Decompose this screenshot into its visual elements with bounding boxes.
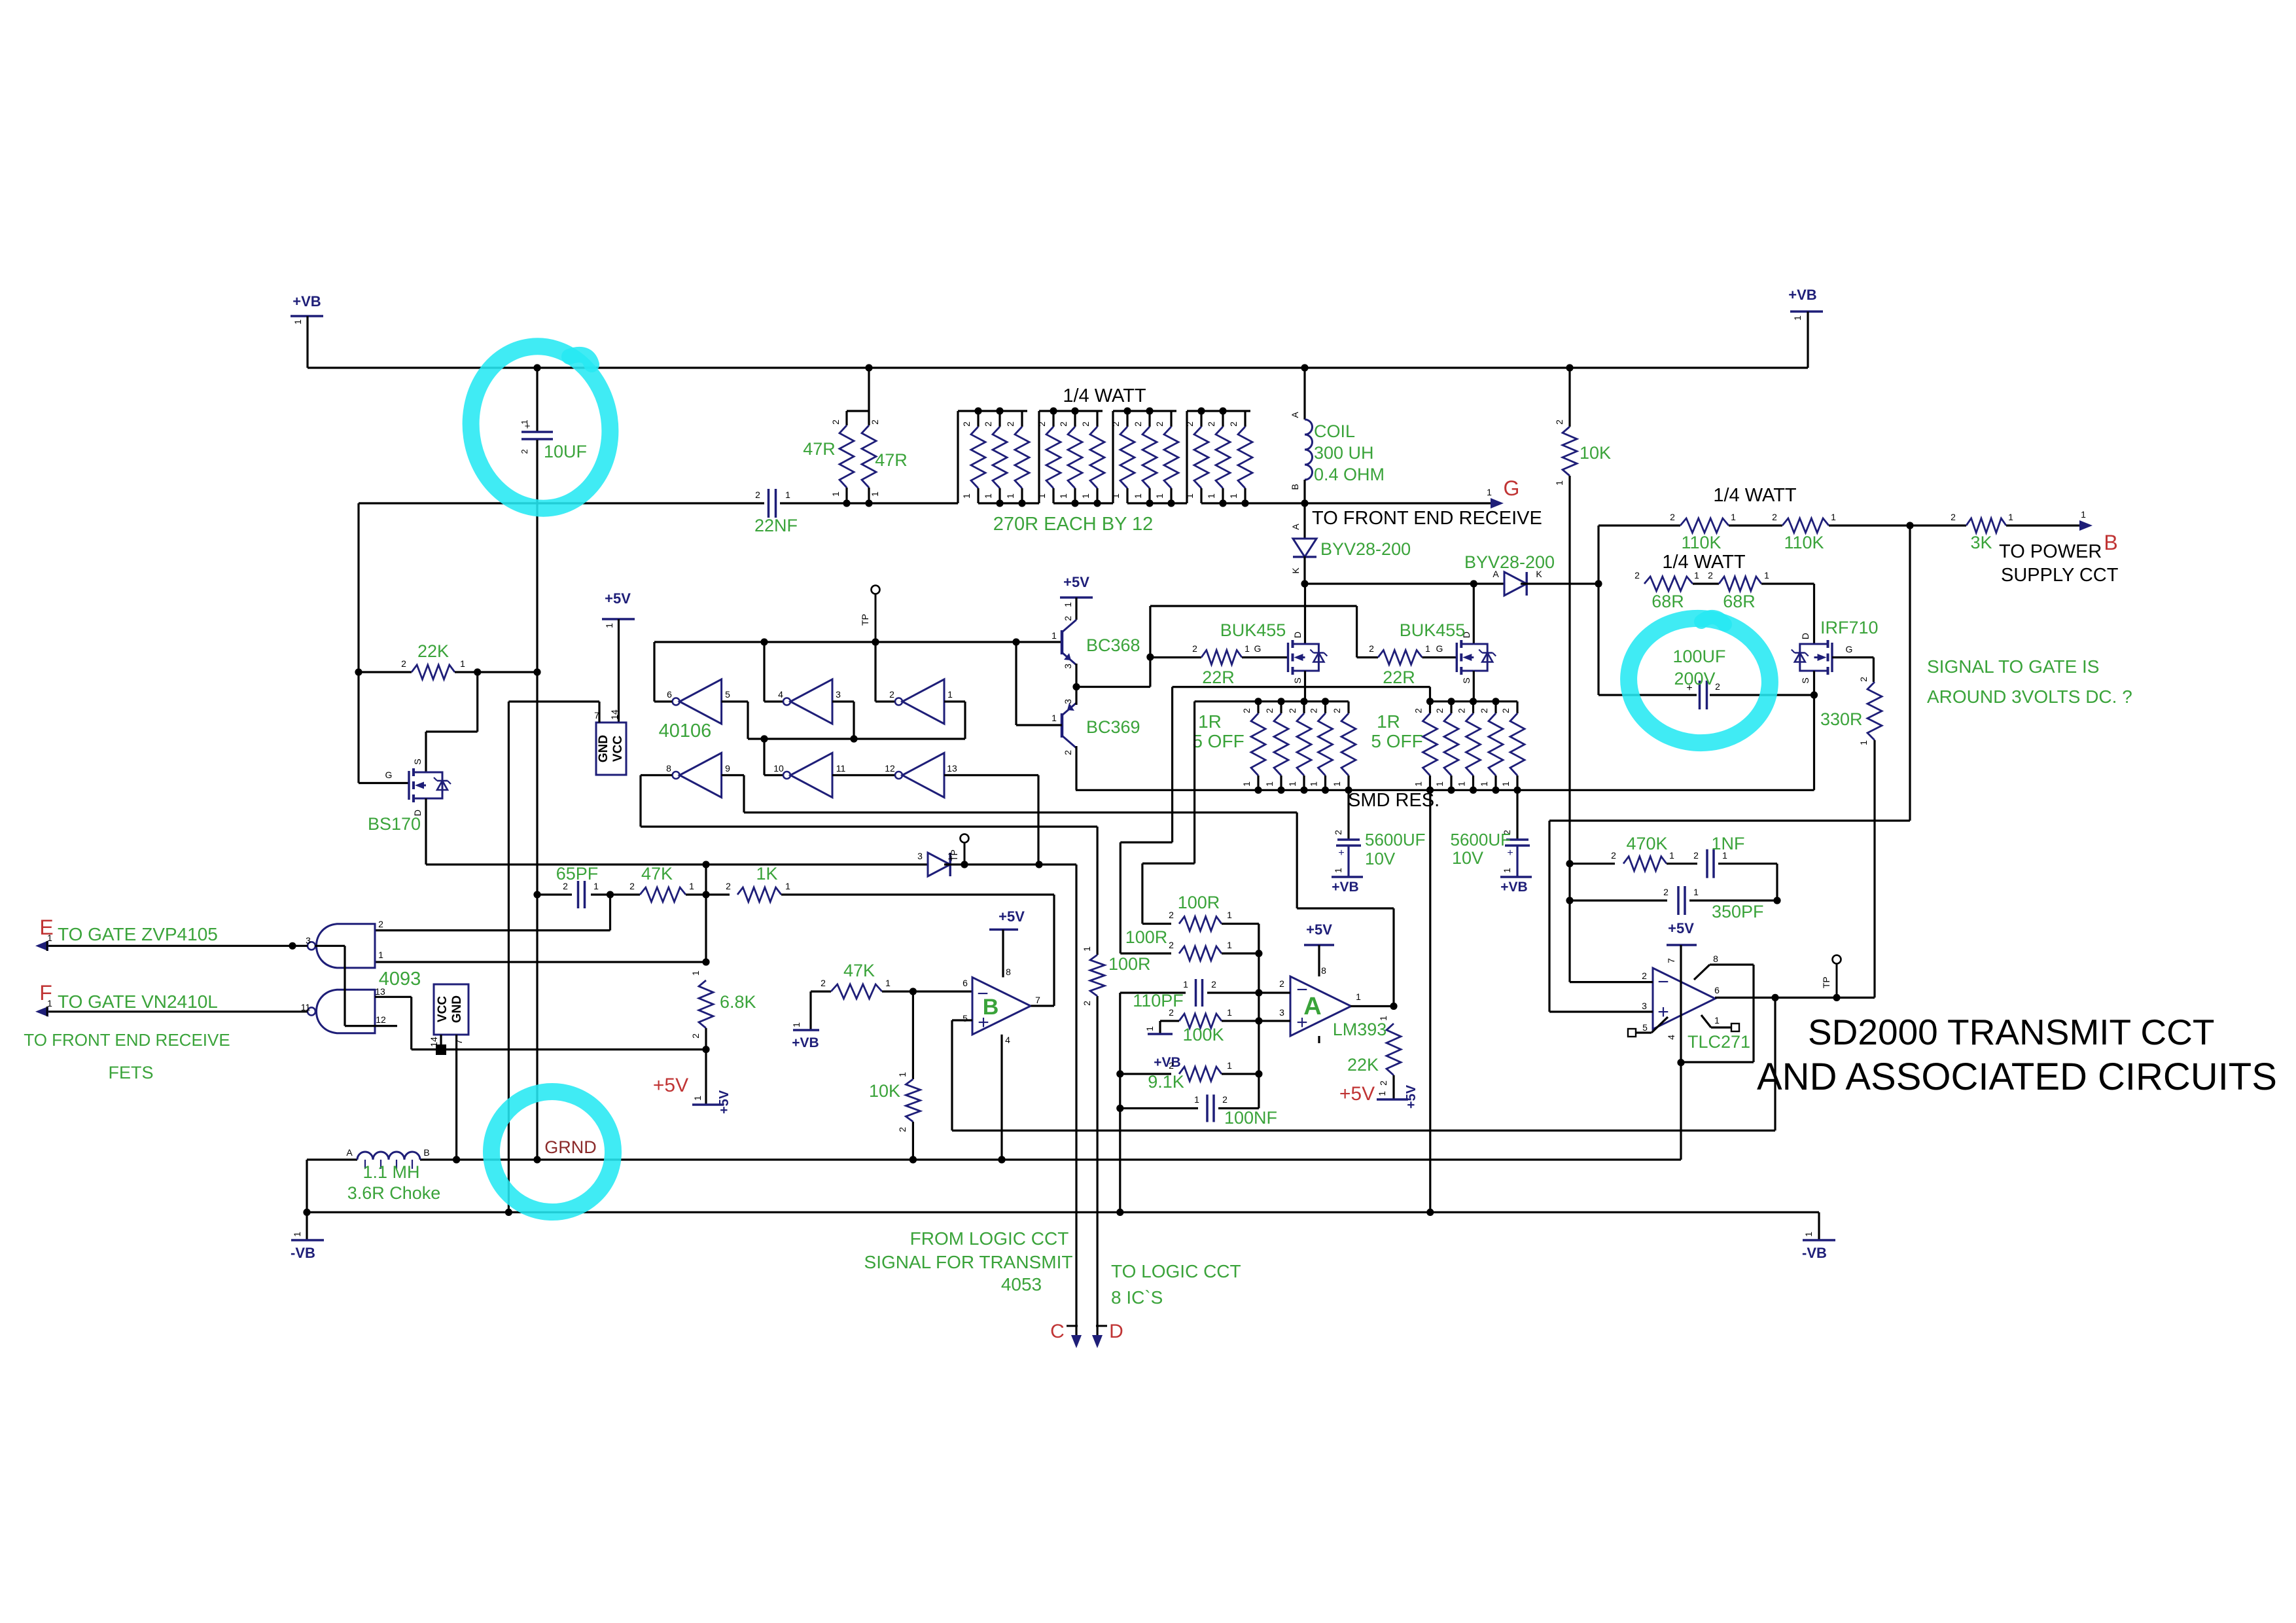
svg-text:1: 1 <box>1080 493 1091 499</box>
svg-text:2: 2 <box>1693 850 1699 861</box>
svg-text:12: 12 <box>376 1014 386 1025</box>
svg-text:9: 9 <box>725 763 730 774</box>
svg-text:BS170: BS170 <box>368 814 421 834</box>
highlight circle GRND <box>487 1088 617 1217</box>
test point TP out <box>1833 955 1841 964</box>
resistor 22R second <box>1357 656 1378 658</box>
svg-text:1: 1 <box>1803 1232 1814 1237</box>
svg-text:100UF: 100UF <box>1672 647 1725 666</box>
wire BC368 emitter <box>1075 664 1077 687</box>
svg-text:LM393: LM393 <box>1333 1020 1387 1039</box>
svg-text:1: 1 <box>689 881 694 891</box>
resistor 22K <box>355 668 362 675</box>
svg-text:+5V: +5V <box>998 908 1025 925</box>
svg-text:A: A <box>1303 993 1321 1020</box>
op-amp A LM393 <box>1290 976 1351 1036</box>
wire D line <box>1096 996 1098 1335</box>
svg-text:110K: 110K <box>1784 533 1824 552</box>
resistor bank 270R x12 <box>957 411 959 503</box>
svg-text:B: B <box>1290 484 1300 490</box>
svg-text:B: B <box>423 1147 429 1158</box>
svg-text:2: 2 <box>1169 910 1174 920</box>
svg-text:1: 1 <box>1051 630 1057 641</box>
gate 40106 B <box>790 679 832 724</box>
svg-text:G: G <box>1254 643 1262 654</box>
svg-text:2: 2 <box>1222 1094 1227 1105</box>
svg-text:2: 2 <box>1309 708 1319 713</box>
wire gnd to TLC pin4 <box>1680 1063 1682 1160</box>
svg-text:SIGNAL TO GATE IS: SIGNAL TO GATE IS <box>1927 656 2099 677</box>
resistor 47K B <box>811 990 831 992</box>
svg-text:2: 2 <box>1333 830 1343 835</box>
svg-text:14: 14 <box>609 709 620 720</box>
svg-text:47R: 47R <box>875 450 908 470</box>
svg-text:5: 5 <box>963 1013 968 1024</box>
wire TLC271 pin8 loop <box>1694 965 1710 980</box>
svg-text:330R: 330R <box>1820 709 1863 729</box>
ic 4093 VCC GND box <box>434 984 468 1035</box>
svg-text:2: 2 <box>1858 677 1869 682</box>
svg-text:SUPPLY CCT: SUPPLY CCT <box>2001 565 2119 586</box>
svg-text:G: G <box>385 770 393 780</box>
node G arrow <box>1491 498 1504 508</box>
wire 22R2 to gate <box>1422 656 1457 658</box>
svg-text:100R: 100R <box>1178 893 1220 912</box>
wire gateA out to pin12 <box>315 945 345 947</box>
svg-text:-VB: -VB <box>1802 1245 1827 1261</box>
svg-text:2: 2 <box>1715 681 1720 692</box>
svg-text:2: 2 <box>1154 421 1165 427</box>
power +VB at 47K B <box>809 991 811 1030</box>
svg-text:47K: 47K <box>843 961 875 980</box>
svg-text:1: 1 <box>791 1022 802 1027</box>
svg-text:7: 7 <box>1666 958 1676 963</box>
svg-text:−: − <box>1657 971 1669 993</box>
wire emitters to gates <box>1076 686 1150 688</box>
svg-text:2: 2 <box>1169 1060 1174 1071</box>
svg-text:3: 3 <box>1279 1007 1284 1018</box>
transistor BC369 <box>1061 713 1064 738</box>
svg-text:2: 2 <box>1611 850 1616 861</box>
svg-text:GND: GND <box>450 995 464 1023</box>
node B arrow <box>2006 524 2081 526</box>
wire 68R to IRF710 <box>1761 582 1814 584</box>
svg-text:1: 1 <box>885 978 891 988</box>
wire opampB plus <box>952 1019 972 1021</box>
wire IRF710 gate <box>1832 656 1873 658</box>
svg-text:1: 1 <box>830 491 841 497</box>
svg-text:2: 2 <box>897 1127 908 1132</box>
svg-text:1: 1 <box>1144 1026 1155 1031</box>
svg-text:8 IC`S: 8 IC`S <box>1111 1287 1163 1308</box>
wire BC369 emitter <box>1075 687 1077 705</box>
wire opampA out riser <box>1392 908 1394 1007</box>
svg-text:GRND: GRND <box>544 1137 597 1157</box>
wire BYV row <box>1305 582 1504 584</box>
wire opampA input column <box>1258 924 1260 1109</box>
svg-text:2: 2 <box>1772 512 1777 522</box>
svg-text:1: 1 <box>1693 887 1699 897</box>
svg-text:1: 1 <box>1425 643 1430 654</box>
svg-text:2: 2 <box>1206 421 1216 427</box>
wire 22R1 to gate <box>1242 656 1288 658</box>
svg-text:2: 2 <box>1169 940 1174 950</box>
capacitor 110PF <box>1120 991 1186 993</box>
svg-text:1: 1 <box>785 881 790 891</box>
wire SMD rail <box>1076 789 1814 791</box>
wire opampA inputs <box>1259 991 1290 993</box>
svg-text:1: 1 <box>1554 480 1564 486</box>
svg-text:12: 12 <box>885 763 895 774</box>
svg-text:2: 2 <box>1479 708 1489 713</box>
svg-text:2: 2 <box>1634 570 1640 580</box>
svg-text:2: 2 <box>1110 421 1121 427</box>
wire 4093 pin7 gnd <box>455 1035 457 1160</box>
capacitor 100NF <box>1120 1107 1198 1109</box>
svg-text:0.4 OHM: 0.4 OHM <box>1314 465 1385 484</box>
svg-text:1: 1 <box>897 1072 908 1077</box>
svg-text:VCC: VCC <box>611 736 625 762</box>
svg-text:2: 2 <box>1169 1007 1174 1018</box>
wire TLC271 pin1 stub <box>1701 1015 1711 1027</box>
svg-text:2: 2 <box>520 449 529 454</box>
svg-text:A: A <box>1290 412 1300 418</box>
svg-text:1R: 1R <box>1377 711 1400 732</box>
resistor 47R pair <box>868 368 870 411</box>
svg-text:65PF: 65PF <box>556 864 599 883</box>
transistor BUK455 second <box>1473 584 1475 644</box>
svg-text:3K: 3K <box>1970 533 1992 552</box>
resistor 100R first <box>1142 923 1171 925</box>
svg-text:1: 1 <box>1287 781 1298 787</box>
wire 6.8K to +5V <box>705 1028 707 1105</box>
svg-text:3: 3 <box>1642 1001 1647 1011</box>
svg-text:100R: 100R <box>1125 927 1168 947</box>
svg-text:22NF: 22NF <box>754 516 798 535</box>
svg-text:10V: 10V <box>1365 849 1396 868</box>
svg-text:+5V: +5V <box>1306 921 1332 938</box>
svg-text:1: 1 <box>1133 493 1143 499</box>
svg-text:2: 2 <box>889 689 894 700</box>
wire invE out riser <box>764 774 783 776</box>
wire gateB out F <box>38 1010 308 1012</box>
wire 1NF drop <box>1776 864 1778 901</box>
svg-text:S: S <box>1800 677 1810 683</box>
svg-text:SD2000 TRANSMIT CCT: SD2000 TRANSMIT CCT <box>1808 1012 2214 1052</box>
svg-text:2: 2 <box>1457 708 1467 713</box>
svg-text:1: 1 <box>1005 493 1016 499</box>
svg-text:7: 7 <box>453 1039 464 1044</box>
svg-text:40106: 40106 <box>659 721 712 741</box>
wire GRND rail dots <box>453 1156 460 1163</box>
wire 40106 gnd pin7 <box>598 702 600 722</box>
highlight circle 10UF <box>461 337 620 517</box>
svg-text:3: 3 <box>836 689 841 700</box>
node D arrow <box>1096 1325 1107 1327</box>
svg-text:1: 1 <box>1036 493 1047 499</box>
svg-text:G: G <box>1846 644 1853 654</box>
svg-text:TP: TP <box>949 849 959 861</box>
gate 4093 A <box>317 924 376 968</box>
svg-text:-VB: -VB <box>291 1245 315 1261</box>
gate 40106 E <box>790 753 832 798</box>
wire 22NF left drop <box>357 503 359 672</box>
svg-text:SIGNAL FOR TRANSMIT: SIGNAL FOR TRANSMIT <box>864 1252 1073 1272</box>
svg-text:2: 2 <box>1211 979 1216 990</box>
wire invC out riser <box>875 700 894 702</box>
svg-text:3: 3 <box>306 935 311 946</box>
svg-text:1: 1 <box>1183 979 1188 990</box>
wire top +VB rail <box>308 366 1808 368</box>
svg-text:100NF: 100NF <box>1224 1108 1277 1128</box>
svg-text:1: 1 <box>690 971 701 976</box>
wire 110K to 3K <box>1829 524 1966 526</box>
svg-text:5: 5 <box>725 689 730 700</box>
transistor BUK455 first <box>1304 584 1306 644</box>
gate 40106 A <box>680 679 722 724</box>
svg-text:2: 2 <box>1287 708 1298 713</box>
svg-text:2: 2 <box>690 1033 701 1039</box>
wire 22NF row <box>359 502 764 504</box>
svg-text:1: 1 <box>947 689 953 700</box>
svg-text:2: 2 <box>1133 421 1143 427</box>
wire inverter outputs top <box>654 700 672 702</box>
svg-text:8: 8 <box>666 763 671 774</box>
svg-text:9.1K: 9.1K <box>1148 1072 1184 1092</box>
svg-text:2: 2 <box>961 421 972 427</box>
svg-text:47K: 47K <box>641 864 673 883</box>
wire TLC271 pin5 stub <box>1651 1017 1668 1033</box>
svg-text:2: 2 <box>1082 1001 1092 1006</box>
svg-text:+5V: +5V <box>605 590 631 607</box>
svg-text:1: 1 <box>1227 1060 1232 1071</box>
capacitor 1NF <box>1667 863 1697 865</box>
test point TP osc2 <box>961 834 969 843</box>
svg-text:2: 2 <box>1413 708 1424 713</box>
svg-text:22R: 22R <box>1383 668 1415 687</box>
svg-text:S: S <box>412 758 423 764</box>
svg-text:G: G <box>1436 643 1443 654</box>
svg-text:4: 4 <box>1666 1035 1676 1040</box>
svg-text:2: 2 <box>1369 643 1374 654</box>
svg-text:1: 1 <box>1858 740 1869 745</box>
wire gateB pin13 <box>375 996 412 998</box>
svg-text:F: F <box>39 981 52 1005</box>
wire invD out <box>641 774 672 776</box>
svg-text:2: 2 <box>629 881 635 891</box>
svg-text:10V: 10V <box>1452 848 1483 868</box>
svg-text:+: + <box>1657 1001 1669 1023</box>
svg-text:1: 1 <box>292 1232 302 1237</box>
svg-text:1: 1 <box>692 1096 703 1101</box>
wire 330R to TLC out <box>1873 740 1875 997</box>
svg-text:1: 1 <box>1227 910 1232 920</box>
svg-text:300 UH: 300 UH <box>1314 443 1374 463</box>
svg-text:+VB: +VB <box>792 1035 819 1050</box>
svg-text:22K: 22K <box>417 641 449 661</box>
svg-text:COIL: COIL <box>1314 421 1355 441</box>
svg-text:2: 2 <box>1332 708 1342 713</box>
resistor 100R second <box>1120 952 1171 954</box>
svg-text:BC369: BC369 <box>1086 717 1140 737</box>
gate 40106 F <box>902 753 944 798</box>
wire 110PF left rail <box>1119 993 1121 1212</box>
wire inverter inputs net <box>722 700 748 702</box>
svg-text:1NF: 1NF <box>1711 834 1744 853</box>
wire 100R2 feed <box>1171 687 1173 843</box>
svg-text:1.1 MH: 1.1 MH <box>362 1162 419 1182</box>
svg-text:1: 1 <box>1714 1015 1720 1026</box>
power +5V at 6.8K <box>692 1103 724 1106</box>
transistor IRF710 <box>1813 584 1815 644</box>
svg-text:10: 10 <box>773 763 784 774</box>
capacitor 5600UF second <box>1516 790 1518 840</box>
node F arrow <box>35 1007 48 1017</box>
resistor 22R first <box>1150 656 1201 658</box>
gate 40106 D <box>680 753 722 798</box>
wire 470K row <box>1570 863 1615 865</box>
svg-text:+5V: +5V <box>1063 574 1089 590</box>
transistor BC368 <box>1061 630 1064 654</box>
svg-text:A: A <box>346 1147 353 1158</box>
svg-text:TP: TP <box>860 614 870 626</box>
svg-text:10UF: 10UF <box>544 442 587 461</box>
wire 110K branch <box>1597 526 1599 584</box>
svg-text:5 OFF: 5 OFF <box>1192 731 1244 751</box>
svg-text:1: 1 <box>604 623 614 628</box>
svg-text:2: 2 <box>1378 1080 1388 1086</box>
wire 47K junction to 6.8K <box>705 895 707 962</box>
wire 47K to opampB <box>882 990 972 992</box>
svg-text:1: 1 <box>2081 509 2086 520</box>
svg-text:2: 2 <box>870 419 880 425</box>
power +VB at 100K <box>1160 1020 1179 1022</box>
ic 40106 GND VCC box <box>596 722 626 775</box>
svg-text:+5V: +5V <box>717 1090 732 1114</box>
svg-text:2: 2 <box>1554 419 1564 425</box>
svg-text:5 OFF: 5 OFF <box>1371 731 1422 751</box>
wire 65PF to 47K <box>591 893 640 895</box>
power symbol -VB left <box>291 1239 324 1241</box>
svg-text:8: 8 <box>1006 967 1011 977</box>
wire invF in <box>944 774 1038 776</box>
svg-text:1: 1 <box>1206 493 1216 499</box>
wire gateA pin1 <box>375 961 706 963</box>
wire 47K-1K junction <box>686 893 730 895</box>
wire 22K to BS170 drain <box>476 672 478 732</box>
svg-text:2: 2 <box>401 658 406 669</box>
diode BYV28-200 vertical <box>1303 503 1305 539</box>
svg-text:1: 1 <box>1457 781 1467 787</box>
gate 40106 C <box>902 679 944 724</box>
svg-text:1: 1 <box>961 493 972 499</box>
svg-text:1: 1 <box>870 491 880 497</box>
wire BS170 drain down <box>425 798 427 865</box>
svg-text:1: 1 <box>1333 868 1343 873</box>
svg-text:1: 1 <box>292 319 303 325</box>
svg-text:1: 1 <box>2008 512 2013 522</box>
svg-text:BC368: BC368 <box>1086 635 1140 655</box>
svg-text:IRF710: IRF710 <box>1820 618 1879 637</box>
svg-text:1: 1 <box>1063 602 1073 607</box>
svg-text:1: 1 <box>378 950 383 960</box>
svg-text:1: 1 <box>1731 512 1736 522</box>
svg-text:22R: 22R <box>1202 668 1235 687</box>
svg-text:2: 2 <box>1036 421 1047 427</box>
svg-text:1: 1 <box>1194 1094 1199 1105</box>
inductor 1.1MH choke <box>357 1152 373 1160</box>
svg-text:2: 2 <box>821 978 826 988</box>
svg-text:2: 2 <box>1063 616 1073 621</box>
svg-text:BYV28-200: BYV28-200 <box>1464 552 1555 572</box>
svg-text:2: 2 <box>1500 708 1511 713</box>
wire 4093 pin14 <box>440 1035 442 1050</box>
svg-text:+VB: +VB <box>1154 1055 1180 1070</box>
inductor COIL 300UH <box>1303 368 1305 419</box>
svg-text:1: 1 <box>1694 570 1699 580</box>
svg-text:1: 1 <box>1356 991 1361 1002</box>
svg-text:2: 2 <box>1063 750 1073 755</box>
svg-text:TO FRONT END RECEIVE: TO FRONT END RECEIVE <box>24 1030 230 1050</box>
svg-text:TLC271: TLC271 <box>1687 1032 1750 1052</box>
test point TP osc <box>872 586 880 594</box>
resistor 10K top <box>1568 368 1570 427</box>
svg-text:2: 2 <box>1708 570 1713 580</box>
svg-text:+5V: +5V <box>1339 1083 1375 1105</box>
wire invD in <box>722 774 744 776</box>
svg-text:2: 2 <box>1663 887 1669 897</box>
wire opampB out <box>1031 1005 1055 1007</box>
svg-text:A: A <box>1290 524 1301 530</box>
power +5V at 22K A <box>1377 1098 1408 1101</box>
svg-text:+5V: +5V <box>653 1075 688 1096</box>
transistor BS170 <box>408 771 410 800</box>
svg-text:2: 2 <box>1642 971 1647 981</box>
wire opampA out <box>1351 1005 1394 1007</box>
resistor 9.1K <box>1120 1073 1171 1075</box>
svg-text:1: 1 <box>1264 781 1275 787</box>
svg-text:1K: 1K <box>756 864 777 883</box>
svg-text:1: 1 <box>1110 493 1121 499</box>
svg-text:7: 7 <box>1035 995 1040 1005</box>
svg-text:2: 2 <box>1192 643 1197 654</box>
svg-text:2: 2 <box>1184 421 1195 427</box>
svg-text:1R: 1R <box>1198 711 1222 732</box>
svg-text:8: 8 <box>1713 954 1718 964</box>
svg-text:TO FRONT END RECEIVE: TO FRONT END RECEIVE <box>1312 508 1542 529</box>
svg-text:1/4 WATT: 1/4 WATT <box>1713 485 1797 506</box>
svg-text:TO GATE VN2410L: TO GATE VN2410L <box>58 991 218 1012</box>
svg-text:1: 1 <box>1227 1007 1232 1018</box>
svg-text:1: 1 <box>460 658 465 669</box>
svg-text:+VB: +VB <box>1788 287 1816 303</box>
svg-text:1: 1 <box>1669 850 1674 861</box>
svg-text:2: 2 <box>1005 421 1016 427</box>
wire 10UF continues <box>536 672 538 1160</box>
svg-text:2: 2 <box>1434 708 1445 713</box>
op-amp B LM393 <box>972 977 1031 1034</box>
svg-text:+: + <box>1338 847 1344 859</box>
svg-text:10K: 10K <box>1580 443 1611 463</box>
wire TLC out to 470K loop <box>1774 997 1776 1130</box>
resistor 110K second <box>1729 524 1782 526</box>
svg-text:110PF: 110PF <box>1133 991 1184 1010</box>
capacitor 10UF <box>536 368 538 431</box>
svg-text:2: 2 <box>378 919 383 929</box>
svg-text:2: 2 <box>1241 708 1252 713</box>
wire gateA out E <box>38 945 308 947</box>
svg-text:3.6R Choke: 3.6R Choke <box>347 1183 441 1203</box>
